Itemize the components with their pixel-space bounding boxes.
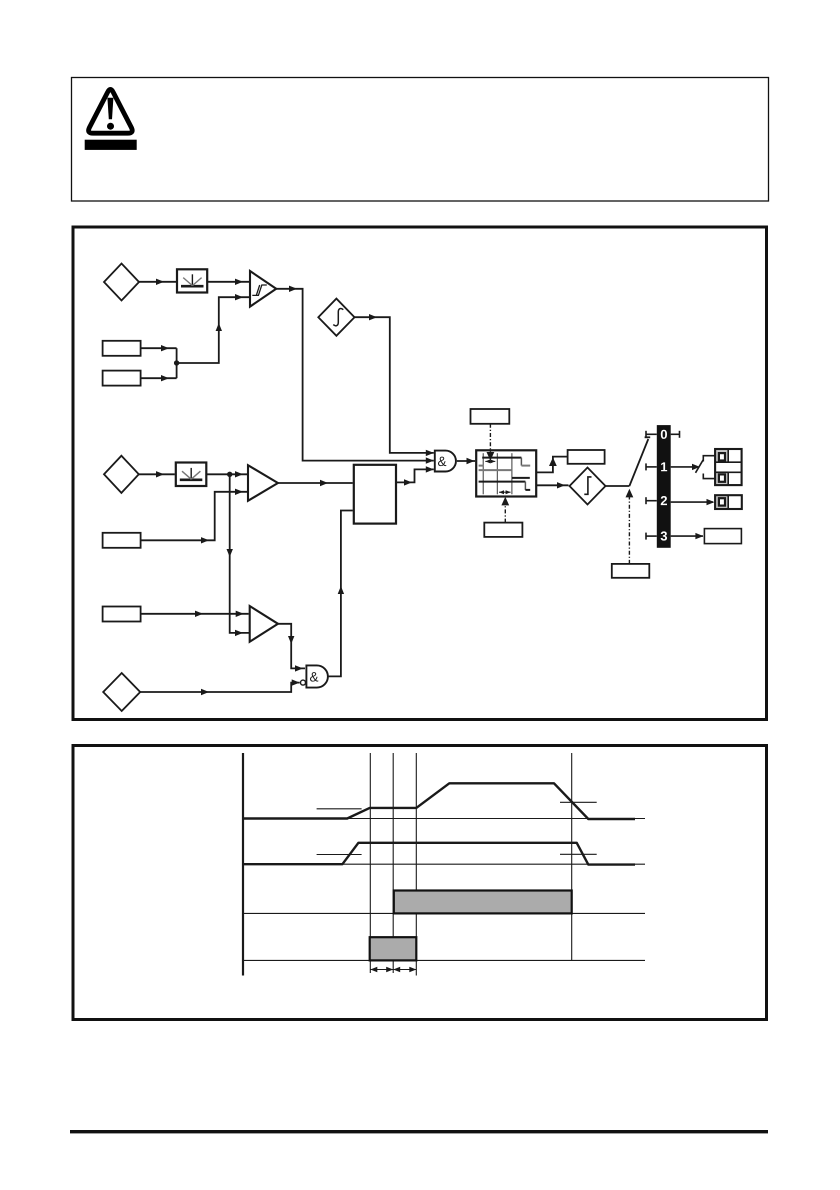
delay block dimension arrow 2 — [499, 490, 511, 494]
diamond parameter 4 (bottom input) — [103, 673, 140, 711]
limiter block 2 — [176, 463, 207, 487]
wire diamond5 to switch — [606, 485, 630, 487]
AND gate labels — [310, 457, 446, 682]
delay block waveform 3 — [479, 482, 531, 490]
wire rectB to junction — [141, 377, 177, 379]
delay block waveform 2 — [479, 470, 530, 478]
relay contact to terminal 2 — [703, 474, 715, 479]
mux input tick 2 — [646, 500, 657, 502]
horizontal axis 4 — [243, 959, 645, 961]
warning triangle icon — [89, 89, 133, 133]
wire rectA to junction — [141, 347, 177, 349]
output terminal block 2 — [715, 495, 742, 509]
at-speed parameter box G — [568, 450, 605, 464]
threshold mark 2b — [560, 853, 597, 855]
switch arm — [629, 439, 648, 486]
warning black bar — [85, 140, 137, 150]
comparator U4 — [250, 606, 278, 642]
parameter box A — [103, 341, 141, 356]
dimension arrow span 1 — [370, 967, 416, 973]
wire junction to comparator1 lower input — [177, 297, 249, 363]
wire mux position 2 to terminal block — [671, 501, 713, 503]
parameter box B — [103, 371, 141, 386]
mux input tick 1 — [646, 466, 657, 468]
dashed link parameter H to switch — [628, 496, 630, 564]
multiplexer bar — [657, 425, 671, 548]
parameter box F (delay time lower) — [484, 523, 522, 537]
parameter box E (delay time upper) — [471, 409, 510, 424]
cursor line 3 — [415, 753, 417, 976]
footer rule — [70, 1130, 768, 1133]
diamond parameter 3 (second input) — [104, 456, 139, 493]
wire comparator2 output to window box — [278, 482, 353, 484]
delay pulse bar — [370, 937, 417, 960]
relay terminal block — [715, 449, 742, 485]
relay contact to terminal 1 — [703, 456, 715, 462]
threshold mark 1a — [317, 808, 362, 810]
dashed link parameter F to delay block — [504, 503, 506, 523]
horizontal axis 3 — [243, 912, 645, 914]
wire diamond2 to AND gate U3 input 1 — [355, 317, 434, 453]
wire rectC to comparator2 lower input — [141, 492, 247, 541]
motor speed waveform — [243, 843, 635, 865]
limiter block 1 — [177, 269, 207, 292]
wire AND gate U5 output up to window box — [328, 511, 353, 677]
wire comparator4 output to AND gate U5 — [278, 624, 305, 669]
relay contact blade — [696, 460, 704, 473]
junction node on speed wire — [227, 472, 232, 477]
comparator U1 (hysteresis) — [250, 271, 276, 307]
delay block dimension arrow 1 — [485, 459, 495, 463]
wire limiter2 to comparator2 — [206, 473, 247, 475]
speed reference waveform — [243, 783, 635, 819]
threshold mark 2a — [317, 854, 362, 856]
diamond parameter 5 (step indicator) — [570, 468, 606, 505]
window detector box — [354, 465, 396, 524]
inverter bubble — [301, 680, 306, 685]
timing diagram frame — [73, 746, 767, 1020]
wire rectD to comparator4 upper input — [141, 613, 249, 615]
wire junction down to comparator4 lower input — [230, 474, 249, 633]
wire window box output to AND gate U3 input 3 — [396, 469, 434, 482]
mux input tick 0 — [646, 431, 680, 540]
parameter box I (position 3) — [704, 529, 741, 544]
warning exclamation mark — [107, 98, 114, 130]
diamond parameter 2 (ramp indicator) — [318, 299, 354, 336]
at-speed pulse bar — [394, 891, 572, 914]
time axis vertical — [242, 753, 244, 976]
wire diamond3 to limiter2 — [139, 473, 175, 475]
delay block cursor lines — [483, 453, 512, 494]
mux labels 0-3 — [661, 430, 668, 541]
comparator U2 — [248, 465, 278, 501]
logic diagram frame — [73, 227, 767, 720]
dimension arrow span 2 — [393, 969, 416, 971]
junction node — [174, 360, 179, 365]
threshold mark 1b — [560, 801, 597, 803]
delay block — [476, 450, 536, 496]
delay block waveform 1 — [479, 458, 531, 466]
wire mux position 1 to relay contact — [671, 466, 697, 468]
AND gate U3 — [435, 451, 456, 472]
cursor line 1 — [369, 753, 371, 973]
parameter box D — [103, 607, 141, 622]
wire delay block to at-speed box — [536, 457, 567, 473]
parameter box C — [103, 533, 141, 548]
wire mux position 3 to parameter box — [671, 535, 703, 537]
cursor line 2 — [392, 753, 394, 973]
parameter box H (select) — [612, 564, 650, 578]
AND gate U5 — [306, 665, 328, 687]
cursor line 4 — [571, 753, 573, 960]
wire delay block to diamond5 — [536, 484, 568, 486]
step symbol — [584, 477, 591, 494]
wire AND gate U3 output to delay block — [457, 460, 475, 462]
wire limiter1 to comparator1 — [207, 281, 249, 283]
horizontal axis 2 — [243, 863, 645, 865]
wire comparator1 output to AND gate U3 — [276, 289, 434, 461]
hysteresis symbol — [252, 285, 266, 295]
wire diamond4 to AND gate U5 inverted input — [140, 683, 300, 692]
integral symbol — [333, 308, 343, 325]
horizontal axis 1 — [243, 818, 645, 820]
dashed link parameter E to delay block — [489, 424, 491, 454]
wire diamond1 to limiter1 — [139, 281, 176, 283]
warning box frame — [72, 78, 769, 202]
diamond parameter 1 (top input) — [104, 264, 139, 301]
mux output tick 0 — [671, 433, 680, 435]
mux input tick 3 — [646, 535, 657, 537]
